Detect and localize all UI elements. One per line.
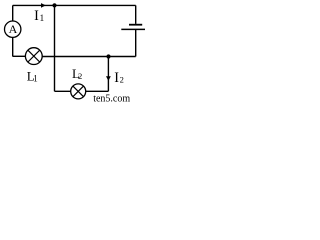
wire top	[13, 4, 136, 6]
wire left upper	[12, 5, 14, 21]
junction node middle	[106, 54, 110, 58]
svg-text:1: 1	[40, 14, 45, 24]
battery positive plate long	[121, 28, 145, 30]
lamp L2	[71, 84, 86, 99]
svg-text:I: I	[114, 70, 119, 86]
lamp L1	[25, 48, 42, 65]
svg-text:2: 2	[78, 71, 82, 81]
wire branch vertical left	[54, 5, 56, 91]
svg-text:1: 1	[33, 74, 38, 84]
current arrow I2	[106, 76, 111, 81]
wire left lower	[12, 37, 14, 56]
current arrow I1	[41, 3, 46, 8]
svg-text:ten5.com: ten5.com	[93, 94, 130, 103]
wire branch vertical right	[107, 57, 109, 92]
wire bottom left	[55, 90, 71, 92]
svg-text:A: A	[9, 22, 18, 36]
junction node top	[52, 3, 56, 7]
wire bottom right	[86, 90, 109, 92]
svg-text:I: I	[34, 8, 39, 24]
battery negative plate short	[129, 24, 142, 26]
wire right upper	[135, 5, 137, 24]
wire middle right	[42, 56, 136, 58]
wire right lower	[135, 29, 137, 56]
ammeter A	[5, 21, 21, 37]
wire middle left	[13, 55, 26, 57]
svg-text:2: 2	[120, 74, 124, 84]
